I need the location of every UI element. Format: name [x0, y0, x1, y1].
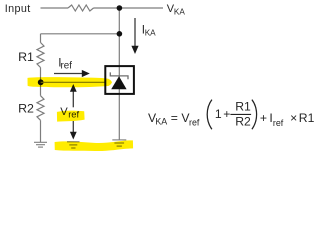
- svg-text:Input: Input: [5, 3, 31, 15]
- highlight band over ground symbols: [55, 140, 134, 151]
- ground below U1: [112, 140, 126, 146]
- series resistor (input): [68, 5, 94, 11]
- junction node at top wire: [117, 5, 123, 11]
- svg-text:=: =: [171, 111, 178, 125]
- ground below R2: [34, 142, 47, 147]
- svg-text:+: +: [223, 107, 230, 121]
- wire: R1 top lead: [40, 34, 42, 43]
- svg-text:ref: ref: [273, 118, 284, 128]
- resistor R1: [37, 43, 44, 68]
- Iref current arrow: [54, 73, 84, 75]
- svg-text:R2: R2: [235, 115, 251, 129]
- svg-text:KA: KA: [174, 8, 185, 17]
- fraction bar R1/R2: [230, 113, 251, 115]
- shunt regulator U1 (TL431) box: [105, 66, 134, 94]
- wire: R2 bottom lead: [40, 120, 42, 142]
- highlight blob over Vref label: [57, 111, 85, 122]
- svg-text:R1: R1: [18, 50, 34, 64]
- wire: R1 bottom to divider node: [40, 68, 42, 96]
- main vertical wire (cathode branch): [118, 8, 120, 140]
- wire: Input to series resistor: [41, 7, 69, 9]
- svg-text:+: +: [260, 111, 267, 125]
- highlight band over REF wire: [28, 77, 113, 87]
- svg-text:KA: KA: [145, 28, 156, 37]
- IKA current arrow: [134, 18, 136, 47]
- wire: upper divider tap to R1: [41, 33, 120, 35]
- svg-text:R1: R1: [299, 111, 315, 125]
- resistor R2: [37, 96, 44, 121]
- svg-text:1: 1: [215, 107, 222, 121]
- wire: REF node to device: [41, 81, 105, 83]
- svg-text:KA: KA: [155, 117, 167, 127]
- svg-text:×: ×: [290, 111, 297, 125]
- formula VKA = Vref (1 + R1/R2) + Iref x R1: [148, 100, 315, 129]
- wire: series resistor to VKA: [94, 7, 164, 9]
- ground below Vref arrow: [67, 142, 80, 148]
- divider node (REF junction): [38, 79, 44, 85]
- big right parenthesis: [252, 100, 257, 130]
- Vref measurement arrow (double headed): [72, 89, 74, 107]
- U1 cathode bent bar: [110, 72, 128, 79]
- big left parenthesis: [207, 100, 212, 130]
- U1 anode triangle: [111, 76, 126, 89]
- junction node on cathode branch: [117, 31, 123, 37]
- svg-text:ref: ref: [189, 118, 200, 128]
- svg-text:ref: ref: [61, 61, 73, 72]
- svg-text:R1: R1: [235, 100, 251, 114]
- svg-text:R2: R2: [18, 102, 34, 116]
